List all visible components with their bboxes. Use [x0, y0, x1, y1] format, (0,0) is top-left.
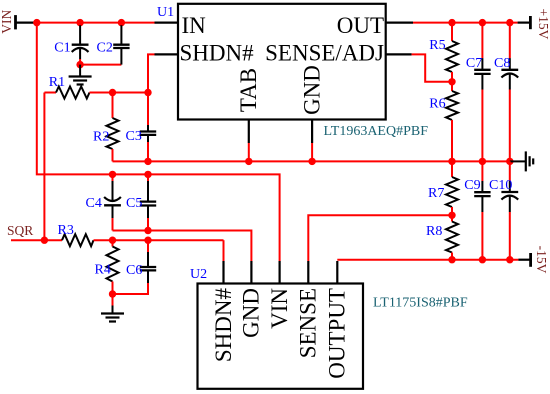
node R5/R6 junction: [448, 78, 455, 85]
capacitor C9: [464, 161, 490, 259]
node R4 top: [109, 237, 116, 244]
node C7 top: [479, 19, 486, 26]
svg-text:GND: GND: [299, 65, 324, 115]
svg-text:VIN: VIN: [0, 10, 14, 34]
resistor R1: [44, 75, 148, 98]
pin TAB stub: [248, 120, 250, 144]
pin SENSE U2 stub: [307, 261, 309, 284]
svg-text:C2: C2: [97, 40, 113, 55]
capacitor C1: [54, 25, 88, 59]
capacitor C8: [494, 23, 518, 162]
svg-text:C9: C9: [464, 178, 480, 193]
svg-text:SENSE/ADJ: SENSE/ADJ: [265, 41, 384, 66]
wire top input rail: [37, 22, 155, 24]
wire U2 SENSE to R7/R8: [308, 215, 452, 261]
node C2 top: [118, 19, 125, 26]
wire C4/C5 bottoms to U2 GND: [113, 231, 252, 262]
pin SHDN# stub: [155, 53, 179, 55]
svg-text:OUT: OUT: [337, 13, 384, 38]
svg-text:SENSE: SENSE: [296, 288, 321, 358]
wire SQR rail to U2 SHDN#: [223, 240, 225, 261]
svg-text:OUTPUT: OUTPUT: [325, 288, 350, 379]
svg-text:+15V: +15V: [536, 9, 550, 40]
node C1 top: [76, 19, 83, 26]
wire -15V rail: [337, 259, 518, 261]
svg-text:U1: U1: [157, 5, 174, 20]
capacitor C7: [466, 23, 491, 162]
svg-text:SHDN#: SHDN#: [180, 41, 255, 66]
wire SHDN# to C3 column: [148, 54, 155, 125]
wire line A (VIN net to U2 VIN): [37, 23, 280, 261]
capacitor C5: [126, 174, 156, 230]
port -15V: [518, 246, 549, 274]
svg-text:R2: R2: [93, 130, 109, 145]
pin OUT stub: [386, 22, 413, 24]
node C7 bottom rail: [479, 158, 486, 165]
svg-text:R1: R1: [49, 75, 65, 90]
resistor R8: [426, 215, 458, 259]
capacitor C3: [126, 125, 157, 161]
pin SHDN# U2 stub: [222, 261, 224, 284]
node C3 bottom rail: [144, 158, 151, 165]
capacitor C6: [126, 240, 156, 283]
pin GND stub: [311, 120, 313, 144]
wire C1 bottom to junction: [79, 59, 81, 65]
resistor R2: [93, 93, 119, 162]
svg-text:C4: C4: [86, 196, 102, 211]
svg-text:R7: R7: [428, 186, 444, 201]
capacitor C2: [97, 25, 130, 64]
svg-text:-15V: -15V: [534, 246, 549, 274]
node R2 top: [109, 89, 116, 96]
port VIN: [0, 10, 37, 34]
resistor R7: [428, 161, 458, 215]
resistor R6: [429, 82, 458, 162]
wire C6 bottom to R4 bottom: [113, 283, 149, 294]
pin IN stub: [155, 22, 179, 24]
capacitor C10: [489, 161, 518, 259]
node R5 top: [448, 19, 455, 26]
pin GND U2 stub: [250, 261, 252, 284]
svg-text:U2: U2: [190, 267, 207, 282]
svg-text:C5: C5: [126, 196, 142, 211]
node R8 bottom rail: [448, 256, 455, 263]
svg-text:VIN: VIN: [267, 288, 292, 329]
node C8 top: [506, 19, 513, 26]
node C10 bottom rail: [506, 256, 513, 263]
svg-text:R6: R6: [429, 97, 445, 112]
port +15V: [518, 9, 550, 40]
node TAB rail: [245, 158, 252, 165]
svg-text:R3: R3: [58, 223, 74, 238]
resistor R5: [429, 23, 458, 82]
node GND U1 rail: [308, 158, 315, 165]
svg-text:TAB: TAB: [236, 68, 261, 112]
resistor R4: [95, 240, 119, 294]
svg-text:R8: R8: [426, 224, 442, 239]
svg-text:SQR: SQR: [7, 223, 33, 238]
wire OUT rail: [413, 22, 518, 24]
pin OUTPUT U2 stub: [336, 261, 338, 284]
chip U2 body: [198, 284, 364, 389]
node C3 top rail: [144, 89, 151, 96]
node C1/C2 bottom: [76, 61, 83, 68]
svg-text:IN: IN: [182, 13, 207, 38]
svg-text:C10: C10: [489, 178, 512, 193]
svg-text:LT1175IS8#PBF: LT1175IS8#PBF: [373, 296, 468, 311]
node C8 bottom rail: [506, 158, 513, 165]
wire SENSE/ADJ to R5/R6: [412, 54, 452, 81]
ground below R4: [101, 306, 124, 322]
node C9 bottom rail: [479, 256, 486, 263]
wire junction to ground: [112, 294, 114, 306]
svg-text:LT1963AEQ#PBF: LT1963AEQ#PBF: [324, 124, 429, 139]
svg-text:C6: C6: [126, 263, 142, 278]
node C5 on line A: [144, 171, 151, 178]
svg-text:R4: R4: [95, 263, 111, 278]
svg-text:C1: C1: [54, 40, 70, 55]
svg-text:SHDN#: SHDN#: [211, 288, 236, 363]
svg-text:C8: C8: [494, 56, 510, 71]
node top rail / line A junction: [33, 19, 40, 26]
svg-text:C3: C3: [126, 129, 142, 144]
ground right of mid rail: [510, 151, 533, 171]
node R4/C6 ground junction: [109, 290, 116, 297]
pin SENSE/ADJ stub: [386, 53, 412, 55]
resistor R3: [58, 223, 224, 246]
node C5 bottom: [144, 227, 151, 234]
wire analog ground mid rail: [113, 160, 510, 162]
node R6 bottom rail: [448, 158, 455, 165]
pin VIN U2 stub: [279, 261, 281, 284]
svg-text:R5: R5: [429, 38, 445, 53]
svg-text:GND: GND: [239, 288, 264, 338]
node C4 on line A: [109, 171, 116, 178]
wire R1 left drop (line B): [43, 93, 45, 241]
node SQR / R1 drop: [41, 237, 48, 244]
svg-text:C7: C7: [466, 56, 482, 71]
capacitor C4: [86, 174, 121, 230]
ground below C1: [69, 65, 92, 85]
wire TAB red drop: [248, 143, 250, 161]
port SQR: [7, 223, 62, 240]
node C6 top: [144, 237, 151, 244]
wire C1-C2 bottom: [80, 64, 121, 66]
wire GND U1 red drop: [311, 143, 313, 161]
node R7/R8 junction: [448, 212, 455, 219]
chip U1 body: [178, 4, 386, 120]
